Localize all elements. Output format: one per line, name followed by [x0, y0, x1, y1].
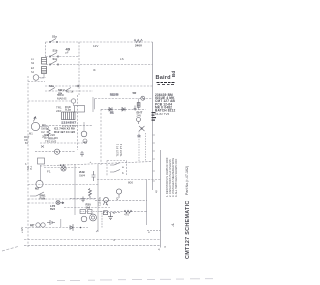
- transistor Q3: [83, 139, 87, 143]
- resistor R6: [124, 210, 132, 213]
- svg-text:F1: F1: [47, 170, 51, 174]
- svg-text:FAN: FAN: [40, 197, 46, 201]
- wire V x=76.5: [74, 165, 76, 215]
- wire arrow above motor: [34, 117, 37, 122]
- svg-text:6V3: 6V3: [50, 207, 55, 211]
- svg-text:+12V: +12V: [20, 227, 24, 233]
- wire stub: [41, 146, 44, 148]
- svg-text:240V: 240V: [135, 44, 142, 48]
- lower switch box: [107, 161, 127, 176]
- wire H y=86: [45, 85, 153, 87]
- resistor R2 box: [137, 103, 140, 108]
- wire H y=164: [40, 162, 153, 167]
- svg-text:pF: pF: [66, 51, 69, 55]
- wire terminal drop: [40, 74, 44, 78]
- transistor Q2: [81, 131, 87, 137]
- wire H y=245.3: [24, 244, 161, 246]
- transistor Q6: [81, 216, 87, 222]
- wire H y=91: [45, 90, 93, 92]
- wire H y=198.3 short: [70, 197, 96, 199]
- svg-text:S1c: S1c: [53, 57, 58, 61]
- svg-text:12V: 12V: [93, 44, 98, 48]
- wire V x=138: [138, 131, 140, 162]
- wire H y=109.3: [101, 108, 146, 110]
- wire V x=40.5: [40, 165, 42, 181]
- svg-text:-4-: -4-: [171, 223, 175, 227]
- wire V x=145: [145, 133, 147, 162]
- top mid cluster text rows: [66, 90, 86, 178]
- wire motor links: [40, 127, 55, 140]
- wire H y=56.5: [46, 56, 80, 58]
- svg-text:+: +: [90, 160, 92, 164]
- wire H y=227: [25, 227, 88, 229]
- svg-text:S1b: S1b: [53, 49, 58, 53]
- ground GND1: [108, 213, 113, 220]
- svg-text:G: G: [56, 150, 58, 154]
- svg-text:4. ALL SWITCHES SHOWN OFF: 4. ALL SWITCHES SHOWN OFF: [174, 158, 178, 197]
- wire V x=93: [92, 97, 94, 112]
- vertical text test points: [116, 143, 124, 156]
- battery B1: [47, 220, 55, 225]
- capacitor C1: [92, 171, 96, 181]
- wire H y=211.7: [100, 211, 147, 213]
- transistor Q7: [90, 214, 97, 221]
- diode D5: [70, 224, 73, 231]
- terminal labels: [24, 58, 35, 166]
- svg-text:SW4: SW4: [79, 174, 86, 178]
- svg-text:R22 56: R22 56: [110, 93, 119, 97]
- wire H y=200.7: [95, 200, 147, 202]
- wire H y=184.5: [28, 184, 99, 186]
- svg-text:SW 2: SW 2: [58, 88, 65, 92]
- switch S8: [110, 170, 120, 173]
- wire V x=60.8: [60, 219, 62, 227]
- connector plug P1: [33, 75, 39, 81]
- wire H y=151.7: [35, 151, 75, 153]
- wire H y=203: [28, 202, 56, 204]
- wire H y=101: [28, 100, 71, 102]
- switch S4: [49, 88, 55, 92]
- switch S5: [65, 88, 71, 92]
- wire V x=138.5: [138, 99, 140, 111]
- wire V x=94.7: [94, 99, 96, 110]
- wire H y=168: [44, 167, 80, 169]
- motor cluster labels: [29, 123, 47, 139]
- svg-text:R12 4k7 C4 1k5: R12 4k7 C4 1k5: [54, 130, 75, 134]
- wire vertical x=79: [78, 42, 80, 95]
- resistor R1: [134, 39, 142, 42]
- wire H y=212.7: [103, 212, 120, 214]
- svg-text:S2a: S2a: [49, 84, 54, 88]
- svg-text:42: 42: [84, 141, 88, 145]
- wire H y=143: [40, 142, 87, 144]
- wire H y=239.5: [24, 239, 161, 241]
- svg-text:1k0: 1k0: [86, 206, 91, 210]
- wire H y=125.3: [42, 124, 93, 126]
- wire H y=64.5: [46, 64, 153, 66]
- lamp LP2: [56, 201, 60, 205]
- svg-text:PL1: PL1: [30, 165, 33, 170]
- right part-number block: [155, 93, 176, 116]
- svg-text:S1a: S1a: [52, 35, 57, 39]
- dashed box output: [80, 212, 102, 229]
- wire V dashed x=101: [100, 109, 102, 165]
- switch S7: [110, 163, 120, 166]
- tiny labels: [30, 44, 160, 252]
- connector circles bottom left: [36, 223, 40, 227]
- IC text below rows: [41, 127, 75, 144]
- svg-text:TEST PT 2: TEST PT 2: [119, 143, 123, 156]
- svg-text:CMT127 SCHEMATIC: CMT127 SCHEMATIC: [185, 200, 191, 259]
- transistor Q4: [137, 118, 141, 122]
- wire H y=179: [97, 179, 161, 181]
- wire top border H y=42: [46, 41, 153, 43]
- svg-text:TP2 6V3: TP2 6V3: [45, 139, 57, 143]
- wire H y=81.5 left: [28, 81, 45, 83]
- bottom faint dotted row: [57, 278, 213, 281]
- switch labels: [49, 35, 65, 96]
- fuse F2 box: [104, 211, 108, 215]
- svg-text:C15 25u: C15 25u: [99, 196, 102, 206]
- dark marks column: [152, 112, 157, 121]
- wire Q2 drop: [83, 122, 85, 131]
- wire V x=77.5: [77, 95, 79, 150]
- diode D1: [108, 107, 113, 111]
- switch S3: [50, 61, 57, 65]
- wire V x=160.5 right lower border: [160, 150, 162, 248]
- node dot: [80, 227, 82, 229]
- wire H y=207.5: [64, 207, 110, 209]
- fan motor M2: [36, 180, 43, 187]
- wire H y=199: [28, 198, 96, 200]
- rectifier box BR1: [75, 106, 85, 113]
- resistor block row: [80, 210, 86, 214]
- transistor Q8: [116, 189, 121, 194]
- svg-text:800: 800: [128, 181, 133, 185]
- switch S2: [50, 53, 57, 57]
- junction arrow on y=86: [75, 85, 79, 87]
- resistor R4: [89, 189, 92, 199]
- svg-text:04-82 TV6: 04-82 TV6: [155, 112, 170, 116]
- resistor R3: [47, 128, 50, 136]
- capacitor C2: [81, 197, 85, 203]
- motor M1: [31, 122, 39, 130]
- svg-text:Part No.(r-47-162): Part No.(r-47-162): [185, 166, 189, 195]
- notes block vertical columns: [165, 157, 178, 197]
- svg-text:a): a): [154, 190, 158, 193]
- bottom-left small text: [20, 224, 34, 234]
- switch S1: [50, 39, 56, 43]
- svg-text:R1 1k: R1 1k: [66, 90, 74, 94]
- svg-text:3t: 3t: [93, 68, 96, 72]
- wire H y=98.5: [95, 98, 153, 100]
- lower-left dark labels: [35, 187, 91, 212]
- left edge vertical labels: [27, 165, 33, 170]
- wire arrow down: [134, 106, 136, 111]
- svg-text:470: 470: [124, 213, 129, 217]
- switch S9: [30, 192, 44, 196]
- relay box K1: [38, 158, 45, 164]
- lamp LP1: [61, 166, 66, 171]
- svg-text:Bd: Bd: [171, 71, 176, 77]
- svg-text:Baird: Baird: [156, 75, 172, 81]
- wire left dashed border x=28: [27, 76, 29, 247]
- wire V x=99: [96, 164, 98, 233]
- switch S6: [71, 99, 75, 103]
- capacitor C8: [80, 151, 84, 157]
- svg-text:24V: 24V: [137, 113, 142, 117]
- wire right border x=152.5: [152, 42, 154, 190]
- node junction J1: [141, 128, 143, 130]
- wire arrow LP2: [60, 202, 64, 204]
- svg-text:0.1u: 0.1u: [65, 108, 71, 112]
- wire left edge of mains box: [45, 42, 47, 57]
- stray pencil mark bottom-left: [2, 247, 18, 252]
- IC U1: [62, 112, 76, 120]
- right stamp block: [156, 71, 176, 85]
- svg-text:TEST PT 1: TEST PT 1: [116, 143, 120, 156]
- svg-text:LS: LS: [120, 57, 124, 61]
- diode D2: [121, 107, 126, 111]
- svg-text:MAINS: MAINS: [57, 97, 67, 101]
- svg-text:AC: AC: [30, 224, 34, 228]
- terminal block TB1: [42, 58, 47, 74]
- svg-text:M1: M1: [29, 132, 33, 136]
- generator G1: [54, 149, 59, 154]
- transistor Q1: [141, 96, 145, 100]
- transistor Q5: [104, 197, 109, 202]
- svg-text:M2: M2: [35, 187, 39, 191]
- node dots on main line: [60, 164, 62, 166]
- wire H y=230.7: [147, 230, 161, 232]
- wire V x=146.7: [146, 180, 148, 226]
